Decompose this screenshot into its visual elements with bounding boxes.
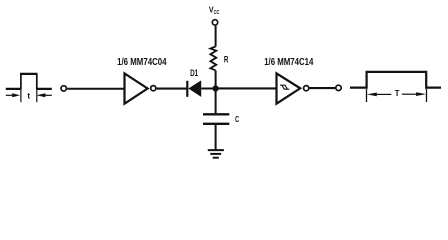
svg-text:1/6 MM74C04: 1/6 MM74C04 [117,57,167,68]
capacitor C top plate [203,113,229,115]
output pulse left tick [366,89,368,102]
output pulse right tick [426,89,428,102]
capacitor C bottom plate [203,123,229,125]
svg-text:D1: D1 [190,68,198,78]
input pulse right tick [36,90,38,102]
wire node to schmitt input [216,87,277,89]
wire resistor to Vcc [215,26,217,47]
svg-text:CC: CC [214,10,220,16]
svg-text:C: C [235,114,239,124]
input terminal [61,86,66,91]
resistor R [210,47,216,71]
wire schmitt to output terminal [310,87,336,89]
svg-text:t: t [27,91,30,100]
input dimension right arrow [45,94,52,96]
op-amp U1 inverter 1/6 MM74C04 [125,73,148,103]
ground [208,149,224,151]
output dimension right arrow [402,93,417,95]
input pulse left tick [20,90,22,102]
op-amp U2 schmitt inverter 1/6 MM74C14 [277,73,301,103]
wire diode to node [201,88,215,90]
wire inverter to diode [157,88,187,90]
node junction dot [213,85,219,91]
input dimension left arrow [6,94,13,96]
wire node up to resistor [215,70,217,88]
hysteresis symbol [280,85,289,89]
wire capacitor to ground [215,125,217,150]
output dimension left arrow [376,93,391,95]
svg-text:1/6 MM74C14: 1/6 MM74C14 [264,57,314,68]
wire input to inverter [67,88,124,90]
diode D1 cathode bar [186,81,188,97]
output terminal [336,85,341,90]
diode D1 body [188,80,201,97]
inverter 1 output bubble [151,86,156,91]
Vcc terminal [212,20,217,25]
svg-text:T: T [395,88,400,98]
wire node down to capacitor [215,89,217,114]
inverter 2 output bubble [304,86,309,91]
output pulse waveform [350,72,441,88]
svg-text:R: R [224,55,229,65]
input pulse waveform [6,74,52,89]
